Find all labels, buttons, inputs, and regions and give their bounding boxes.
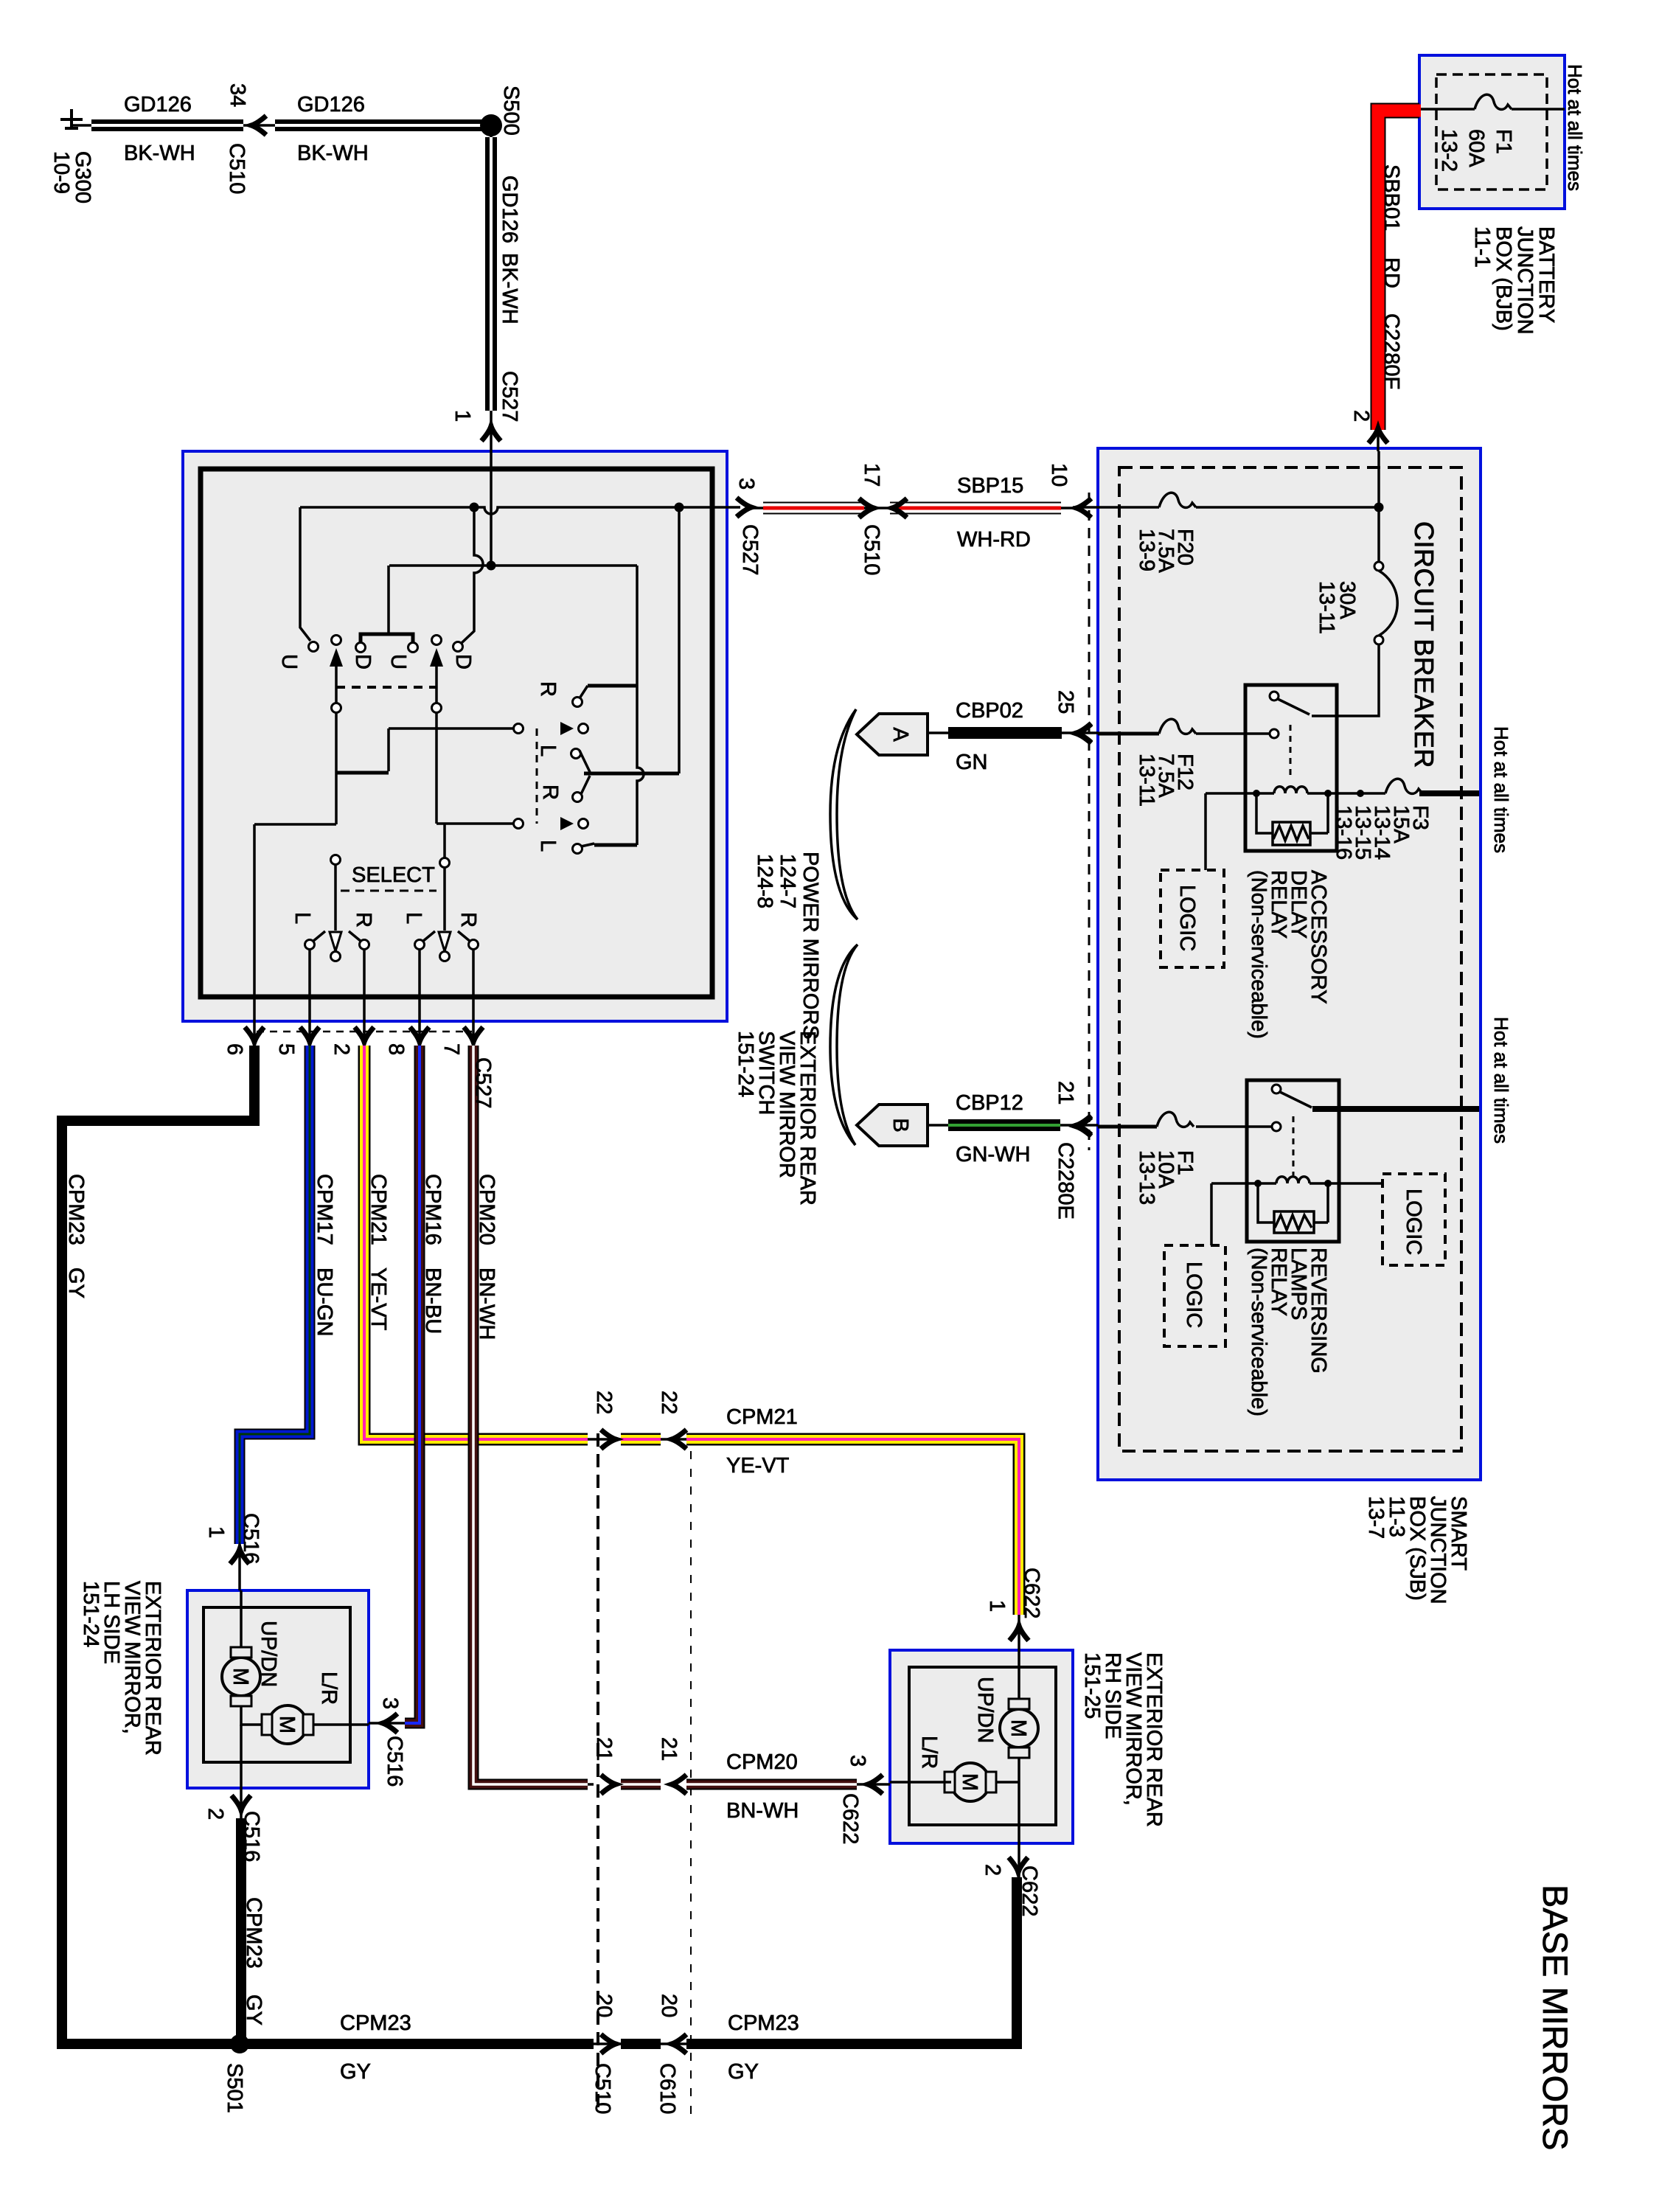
svg-text:10: 10 bbox=[1047, 463, 1071, 487]
svg-text:1: 1 bbox=[451, 410, 474, 422]
svg-text:F1: F1 bbox=[1492, 129, 1515, 154]
svg-text:CPM16: CPM16 bbox=[421, 1174, 445, 1245]
svg-text:13-9: 13-9 bbox=[1135, 529, 1158, 571]
svg-text:(Non-serviceable): (Non-serviceable) bbox=[1247, 870, 1270, 1039]
svg-text:BK-WH: BK-WH bbox=[297, 142, 369, 165]
svg-text:C527: C527 bbox=[738, 524, 762, 575]
svg-text:BN-BU: BN-BU bbox=[421, 1267, 445, 1334]
svg-text:21: 21 bbox=[1054, 1081, 1077, 1105]
svg-text:151-25: 151-25 bbox=[1080, 1652, 1104, 1719]
svg-text:LOGIC: LOGIC bbox=[1175, 885, 1199, 951]
svg-text:2: 2 bbox=[204, 1808, 227, 1820]
svg-text:LOGIC: LOGIC bbox=[1182, 1262, 1206, 1328]
svg-text:L: L bbox=[291, 912, 314, 924]
svg-text:LOGIC: LOGIC bbox=[1402, 1189, 1425, 1255]
svg-text:124-8: 124-8 bbox=[753, 854, 776, 908]
svg-text:20: 20 bbox=[592, 1994, 616, 2017]
svg-text:CPM23: CPM23 bbox=[728, 2011, 799, 2035]
svg-text:1: 1 bbox=[985, 1600, 1009, 1612]
svg-text:WH-RD: WH-RD bbox=[957, 528, 1031, 552]
svg-text:3: 3 bbox=[846, 1755, 869, 1767]
svg-text:13-16: 13-16 bbox=[1332, 805, 1355, 860]
svg-text:C510: C510 bbox=[591, 2063, 614, 2114]
svg-text:17: 17 bbox=[860, 463, 883, 487]
svg-text:GD126: GD126 bbox=[498, 175, 521, 243]
svg-text:GY: GY bbox=[340, 2060, 371, 2084]
svg-text:B: B bbox=[888, 1118, 912, 1132]
svg-text:R: R bbox=[538, 785, 562, 800]
svg-text:11-1: 11-1 bbox=[1470, 226, 1494, 268]
svg-text:13-2: 13-2 bbox=[1437, 129, 1461, 172]
svg-text:CPM20: CPM20 bbox=[726, 1750, 798, 1774]
svg-text:25: 25 bbox=[1054, 690, 1077, 714]
svg-text:CPM20: CPM20 bbox=[475, 1174, 498, 1245]
svg-text:S501: S501 bbox=[223, 2063, 246, 2113]
svg-text:UP/DN: UP/DN bbox=[257, 1621, 280, 1687]
svg-text:C610: C610 bbox=[655, 2063, 679, 2114]
svg-text:M: M bbox=[229, 1668, 252, 1686]
svg-text:CPM21: CPM21 bbox=[726, 1405, 798, 1429]
svg-text:M: M bbox=[958, 1773, 981, 1791]
svg-text:U: U bbox=[386, 654, 410, 669]
svg-text:BN-WH: BN-WH bbox=[726, 1799, 799, 1823]
svg-text:YE-VT: YE-VT bbox=[366, 1267, 390, 1331]
svg-text:CPM23: CPM23 bbox=[64, 1174, 88, 1245]
svg-text:GY: GY bbox=[728, 2060, 759, 2084]
svg-text:BK-WH: BK-WH bbox=[124, 142, 195, 165]
svg-text:CPM21: CPM21 bbox=[366, 1174, 390, 1245]
svg-text:L: L bbox=[402, 912, 425, 924]
svg-text:CPM23: CPM23 bbox=[242, 1897, 265, 1969]
svg-text:13-11: 13-11 bbox=[1135, 754, 1158, 807]
svg-text:R: R bbox=[352, 912, 375, 928]
svg-text:Hot at all times: Hot at all times bbox=[1564, 64, 1586, 191]
svg-text:151-24: 151-24 bbox=[734, 1031, 757, 1097]
svg-text:UP/DN: UP/DN bbox=[973, 1677, 997, 1743]
svg-text:CBP12: CBP12 bbox=[956, 1091, 1023, 1115]
svg-text:L/R: L/R bbox=[917, 1736, 941, 1769]
svg-text:7: 7 bbox=[439, 1043, 463, 1055]
svg-text:A: A bbox=[888, 727, 912, 742]
svg-text:S500: S500 bbox=[499, 86, 523, 136]
svg-text:2: 2 bbox=[981, 1864, 1004, 1876]
svg-text:CIRCUIT BREAKER: CIRCUIT BREAKER bbox=[1409, 521, 1439, 768]
svg-text:C622: C622 bbox=[838, 1793, 862, 1844]
svg-text:2: 2 bbox=[1349, 410, 1373, 422]
svg-text:L: L bbox=[536, 840, 560, 852]
svg-text:GN-WH: GN-WH bbox=[956, 1143, 1030, 1166]
svg-text:C516: C516 bbox=[383, 1736, 406, 1787]
svg-text:R: R bbox=[456, 912, 480, 928]
svg-text:RD: RD bbox=[1380, 257, 1403, 288]
svg-text:C516: C516 bbox=[240, 1811, 263, 1862]
svg-text:C510: C510 bbox=[860, 524, 883, 575]
svg-text:GN: GN bbox=[956, 751, 988, 774]
svg-text:34: 34 bbox=[226, 83, 249, 107]
svg-text:C2280F: C2280F bbox=[1380, 313, 1403, 389]
svg-text:GD126: GD126 bbox=[297, 93, 365, 116]
svg-text:C2280E: C2280E bbox=[1054, 1142, 1077, 1220]
svg-text:GY: GY bbox=[242, 1994, 265, 2025]
svg-text:BN-WH: BN-WH bbox=[475, 1267, 498, 1340]
svg-text:CBP02: CBP02 bbox=[956, 699, 1023, 723]
svg-text:C516: C516 bbox=[239, 1513, 262, 1564]
svg-text:L/R: L/R bbox=[317, 1672, 341, 1705]
svg-text:YE-VT: YE-VT bbox=[726, 1454, 790, 1478]
svg-text:CPM17: CPM17 bbox=[313, 1174, 336, 1245]
svg-text:8: 8 bbox=[384, 1043, 408, 1055]
svg-text:SBP15: SBP15 bbox=[957, 474, 1023, 498]
svg-text:6: 6 bbox=[223, 1043, 246, 1055]
svg-text:R: R bbox=[536, 681, 560, 697]
svg-text:GY: GY bbox=[64, 1267, 88, 1298]
svg-text:BOX (BJB): BOX (BJB) bbox=[1492, 226, 1515, 331]
svg-text:3: 3 bbox=[378, 1697, 402, 1709]
svg-text:BK-WH: BK-WH bbox=[498, 253, 521, 324]
svg-text:22: 22 bbox=[657, 1391, 681, 1414]
svg-text:GD126: GD126 bbox=[124, 93, 192, 116]
svg-text:22: 22 bbox=[592, 1391, 616, 1414]
svg-text:3: 3 bbox=[734, 478, 758, 490]
svg-text:10-9: 10-9 bbox=[49, 151, 73, 194]
svg-text:C622: C622 bbox=[1020, 1568, 1043, 1618]
svg-text:POWER MIRRORS: POWER MIRRORS bbox=[799, 852, 822, 1040]
svg-text:20: 20 bbox=[657, 1994, 681, 2017]
svg-text:SELECT: SELECT bbox=[352, 863, 435, 887]
svg-text:L: L bbox=[536, 745, 560, 757]
svg-text:G300: G300 bbox=[71, 151, 94, 204]
svg-text:151-24: 151-24 bbox=[79, 1581, 102, 1647]
svg-text:Hot at all times: Hot at all times bbox=[1490, 1017, 1512, 1144]
svg-text:JUNCTION: JUNCTION bbox=[1513, 226, 1537, 335]
svg-text:M: M bbox=[275, 1716, 299, 1733]
svg-text:D: D bbox=[351, 654, 375, 669]
svg-text:C510: C510 bbox=[225, 143, 248, 194]
svg-text:C527: C527 bbox=[471, 1057, 495, 1108]
svg-text:13-13: 13-13 bbox=[1135, 1150, 1158, 1205]
svg-text:1: 1 bbox=[204, 1526, 228, 1538]
svg-text:13-11: 13-11 bbox=[1315, 581, 1338, 634]
svg-text:M: M bbox=[1006, 1719, 1030, 1737]
svg-text:21: 21 bbox=[592, 1737, 616, 1761]
svg-text:124-7: 124-7 bbox=[776, 854, 799, 908]
svg-text:D: D bbox=[451, 654, 475, 669]
svg-text:21: 21 bbox=[657, 1737, 681, 1761]
svg-text:13-7: 13-7 bbox=[1364, 1496, 1388, 1539]
svg-text:U: U bbox=[277, 654, 301, 669]
svg-text:5: 5 bbox=[274, 1043, 298, 1055]
svg-text:Hot at all times: Hot at all times bbox=[1490, 726, 1512, 853]
svg-text:CPM23: CPM23 bbox=[340, 2011, 411, 2035]
svg-text:BATTERY: BATTERY bbox=[1534, 226, 1558, 323]
svg-text:2: 2 bbox=[330, 1043, 353, 1055]
svg-text:C527: C527 bbox=[498, 371, 521, 422]
svg-text:C622: C622 bbox=[1018, 1865, 1041, 1916]
svg-text:(Non-serviceable): (Non-serviceable) bbox=[1247, 1248, 1270, 1416]
svg-text:SBB01: SBB01 bbox=[1380, 164, 1403, 231]
svg-text:60A: 60A bbox=[1464, 129, 1488, 167]
svg-text:BASE MIRRORS: BASE MIRRORS bbox=[1536, 1885, 1575, 2150]
svg-text:BU-GN: BU-GN bbox=[313, 1267, 336, 1336]
